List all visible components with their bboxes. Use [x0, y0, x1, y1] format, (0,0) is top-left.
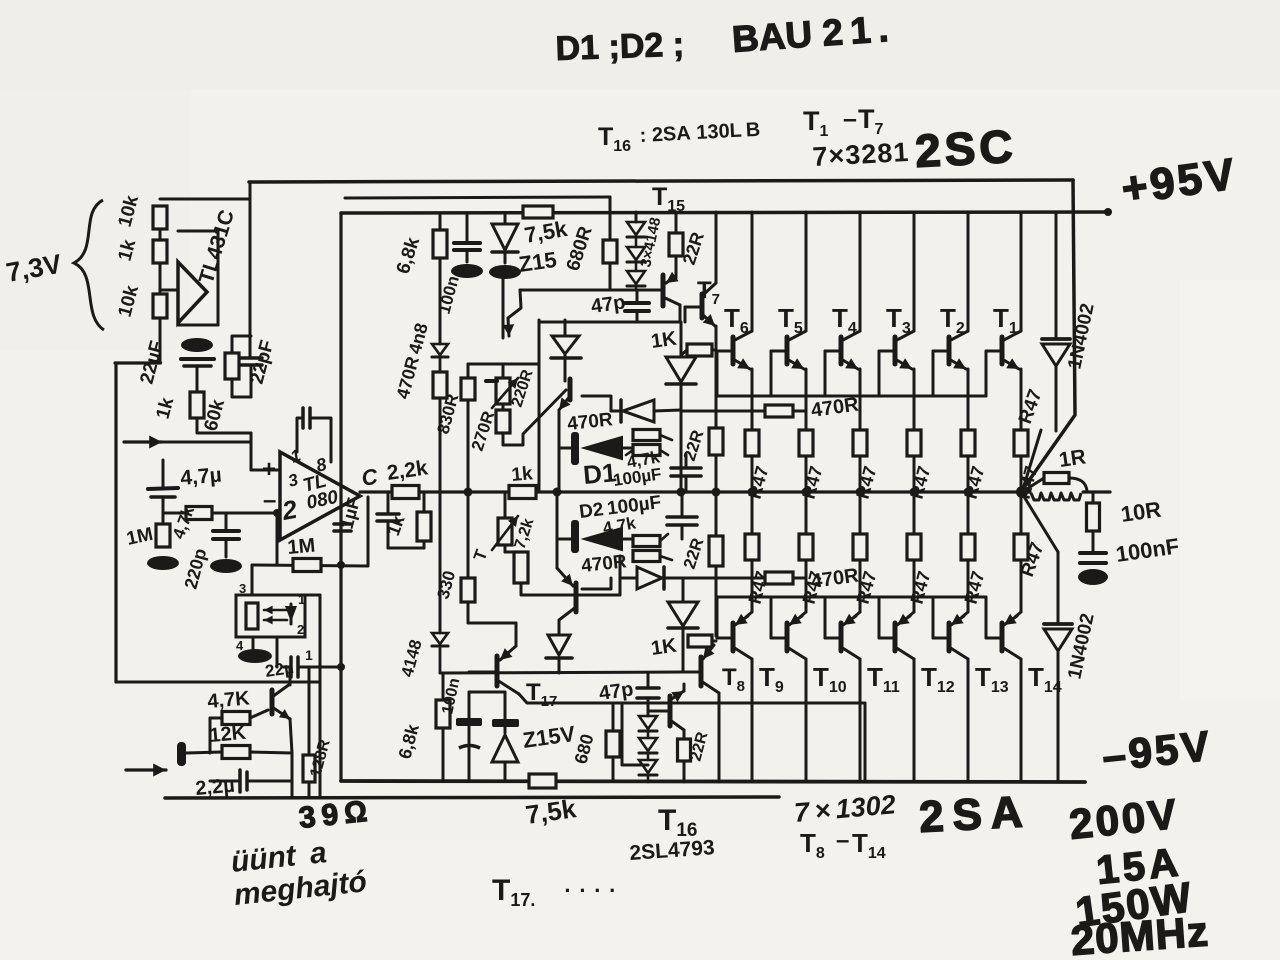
wire T16 collector	[683, 684, 686, 739]
wire x620 vert	[619, 556, 622, 595]
label 12K	[209, 722, 248, 747]
svg-text:2 S A: 2 S A	[918, 788, 1024, 842]
diode chain 3x4148 a	[627, 212, 645, 247]
wire Qbias lower feed	[556, 494, 559, 568]
resistor R47 low T12	[907, 534, 921, 560]
label 680R top	[563, 224, 597, 274]
label 1R	[1057, 445, 1087, 472]
capacitor 22uF fb	[283, 657, 341, 677]
label 22uF	[137, 339, 169, 387]
label 6,8k	[393, 234, 425, 276]
opto arrows	[264, 606, 287, 625]
label R47 low T11	[853, 569, 881, 606]
wire 2,2u left	[210, 780, 240, 783]
diode small D2 row	[620, 567, 681, 589]
wire ref chain b	[159, 263, 162, 294]
label 2SC	[914, 120, 1018, 177]
wire drivers left vert	[538, 320, 541, 490]
label pin8	[314, 454, 329, 476]
transistor T10	[785, 623, 790, 651]
node feedback x341	[337, 561, 345, 569]
wire T12 emitter	[897, 560, 914, 625]
label 470R d2	[580, 551, 628, 577]
capacitor 22pF	[240, 358, 262, 365]
wire T12 collector	[895, 647, 914, 782]
resistor R47 T4	[853, 430, 867, 456]
label T1-T7	[803, 104, 884, 140]
label 470R upper bank	[810, 393, 861, 422]
resistor 60k	[225, 353, 239, 379]
wire ref chain c	[159, 318, 162, 363]
resistor 128R	[303, 667, 315, 798]
wire T13 emitter	[951, 560, 968, 625]
wire T11 emitter	[843, 560, 860, 625]
wire TL431 box top	[178, 230, 218, 233]
wire lower 470R line	[681, 577, 806, 580]
label 22u fb	[264, 658, 295, 681]
resistor 22R lower	[709, 492, 723, 636]
transistor T13	[947, 623, 952, 651]
ground 220p	[210, 559, 242, 573]
label 100nF out	[1114, 533, 1180, 567]
label T10	[813, 662, 847, 696]
wire x865 drop	[864, 703, 867, 782]
wire top outer line	[249, 180, 1073, 182]
label TL080	[301, 471, 341, 514]
resistor 4,7k input	[186, 507, 212, 520]
wire left shield vertical	[114, 363, 117, 682]
wire opamp comp box b	[310, 418, 331, 462]
frame D1 top	[582, 396, 611, 411]
brace 7.3V	[74, 200, 104, 330]
resistor 22R t16	[678, 730, 691, 782]
wire R47L T14 top	[1020, 492, 1023, 534]
svg-text:2: 2	[297, 622, 304, 637]
capacitor 2,2u	[240, 770, 292, 792]
label TL431C	[195, 207, 239, 286]
transistor T7	[685, 294, 702, 322]
transistor T2	[947, 337, 952, 364]
wire left frame vertical	[339, 213, 342, 781]
wire T4 emitter	[841, 358, 860, 430]
wire 12K line	[186, 752, 292, 753]
wire T10 emitter	[789, 560, 806, 625]
wire output end	[1083, 490, 1110, 493]
label 2,2u	[195, 775, 236, 800]
node mid x681	[677, 488, 686, 497]
svg-text:4,7K: 4,7K	[207, 687, 252, 713]
wire Qin emitter down	[290, 719, 292, 753]
resistor 1k mid line	[509, 486, 536, 499]
label 47p top	[590, 291, 627, 318]
resistor 4,7k d1 b	[633, 445, 660, 456]
label op-amp plus	[262, 456, 276, 483]
svg-text:2SC: 2SC	[914, 120, 1018, 177]
label 4148 lower	[398, 638, 426, 679]
wire input node	[162, 497, 165, 524]
label 220p	[181, 546, 211, 591]
node out 22R	[712, 488, 721, 497]
wire d2 mesh	[660, 534, 672, 560]
label 68k lower	[395, 721, 424, 761]
zener bias upper	[551, 320, 581, 381]
wire opamp feedback left	[273, 509, 281, 565]
wire 470R mid down	[439, 398, 442, 492]
label 2SL4793	[629, 836, 716, 865]
wire T2 emitter	[949, 358, 968, 430]
node +95V rail end dot	[1104, 208, 1112, 216]
wire upper base bus	[716, 395, 986, 398]
transistor T14	[1000, 623, 1005, 651]
wire R47L T9 top	[751, 492, 754, 534]
wire Qbias emitter down	[558, 410, 561, 489]
diode 4148 lower	[432, 633, 448, 673]
frame D2 bottom	[582, 578, 611, 589]
node out T6	[748, 488, 757, 497]
label T13	[975, 662, 1009, 696]
diode T16 chain b	[639, 738, 657, 760]
diode big lower	[668, 578, 698, 672]
node out T3	[910, 488, 919, 497]
wire T14 collector	[1002, 647, 1021, 782]
label T6	[724, 303, 749, 337]
resistor R47 T6	[745, 430, 759, 456]
label T17 bottom	[492, 872, 615, 910]
wire y682 line	[116, 681, 320, 684]
resistor 470R upper bank	[765, 405, 793, 417]
label T15	[652, 183, 685, 215]
wire +95V rail	[341, 212, 1108, 213]
label 20MHz	[1069, 907, 1210, 960]
wire T17 base	[469, 671, 497, 674]
label 1N4002 upper	[1064, 302, 1098, 371]
wire lower base bus	[716, 596, 986, 599]
label 3x4148	[637, 216, 664, 269]
wire TL431 box bottom	[178, 324, 218, 327]
wire T6 base	[717, 351, 733, 396]
wire y363 bias	[468, 363, 539, 366]
label 4,7k input	[169, 503, 198, 541]
wire T3 collector	[895, 212, 914, 341]
wire opto gnd stem	[252, 637, 255, 650]
node output main	[1016, 486, 1028, 498]
label 7,5k bottom	[524, 793, 579, 830]
label R47 low T10	[799, 569, 827, 606]
wire T9 emitter	[735, 560, 752, 625]
label 1K top	[650, 328, 679, 353]
label 7,2k	[512, 516, 538, 551]
label 150W	[1073, 873, 1196, 936]
wire input line	[163, 512, 280, 515]
label opamp out C	[360, 463, 381, 491]
label 47p lower	[598, 678, 635, 705]
label R47 low T12	[907, 569, 935, 606]
label T8	[722, 664, 745, 695]
label R47 low T9	[745, 569, 773, 606]
resistor 7,5k bottom	[529, 774, 556, 788]
op-amp TL080 triangle	[280, 452, 360, 540]
resistor 680 lower	[606, 703, 620, 781]
wire T12 base	[879, 597, 895, 638]
label 22u pin1	[305, 647, 313, 663]
ground Z15	[489, 265, 521, 338]
resistor 22R upper	[709, 428, 723, 492]
label 100n lower	[439, 677, 463, 716]
transistor Q bias lower	[557, 568, 576, 612]
label R47 T3	[907, 464, 935, 501]
wire fb bottom join	[388, 547, 424, 550]
wire R47L T10 top	[805, 492, 808, 534]
wire x468 bottom bend	[468, 602, 516, 623]
label hint a	[229, 836, 328, 879]
node out T5	[802, 488, 811, 497]
transistor T4	[839, 337, 844, 364]
transistor T8	[701, 645, 719, 782]
resistor opto internal	[246, 603, 258, 629]
label opto pin1	[298, 592, 305, 607]
transistor T9	[731, 623, 736, 651]
label 1k fb	[383, 512, 409, 539]
wire T2 base	[933, 351, 949, 396]
resistor 2,2k	[392, 486, 419, 499]
capacitor 100nF out	[1080, 553, 1106, 563]
inductor output	[1031, 493, 1081, 500]
wire top outer right drop	[1023, 180, 1075, 489]
label 39ohm	[297, 794, 374, 835]
label T14	[1028, 662, 1062, 696]
diode opto led	[285, 604, 297, 624]
svg-text:+: +	[262, 456, 276, 483]
wire upper 470R line	[681, 410, 806, 413]
ground 100nF out	[1078, 569, 1108, 585]
label 470R d1	[566, 409, 614, 435]
resistor 1M input	[156, 524, 170, 547]
optocoupler box	[236, 595, 305, 637]
wire x440 lower	[439, 492, 442, 633]
wire T11 base	[825, 597, 841, 638]
wire y673 line	[440, 672, 683, 673]
wire T7 emitter	[702, 314, 716, 428]
label T16 big	[658, 804, 697, 841]
label 22R upper	[680, 428, 708, 464]
node out T1	[1017, 488, 1026, 497]
capacitor 22uF blob	[181, 338, 213, 352]
wire T1 base	[986, 351, 1002, 396]
resistor R47 low T13	[961, 534, 975, 560]
capacitor 4,7u input stub	[162, 460, 165, 487]
label 10k bottom	[115, 283, 144, 319]
diode small D1 row	[611, 400, 681, 422]
svg-text:1M: 1M	[287, 535, 317, 559]
label 22R t16	[687, 730, 711, 763]
capacitor 22uF plates	[181, 359, 214, 366]
label T12	[921, 662, 955, 696]
wire R47 T3 down	[913, 456, 916, 492]
label meghajto	[232, 865, 368, 912]
wire T10 collector	[787, 647, 806, 782]
wire R47L T12 top	[913, 492, 916, 534]
resistor 10k bottom	[153, 294, 167, 318]
wire T9 base	[717, 597, 733, 638]
zener Z15V lower	[492, 692, 519, 781]
wire T14 base	[986, 597, 1002, 638]
resistor 4,7k d2 a	[633, 536, 660, 547]
capacitor 4,7u plates	[148, 488, 178, 497]
svg-text:3: 3	[239, 581, 246, 596]
label R47 T1	[1014, 464, 1042, 501]
label pin2	[279, 494, 300, 526]
resistor 830R	[461, 378, 475, 400]
wire T1 emitter	[1002, 358, 1021, 430]
wire R47 T5 down	[805, 456, 808, 492]
label pin1	[288, 446, 303, 467]
capacitor 47p lower	[637, 674, 659, 714]
resistor 4,7k d1 a	[633, 430, 660, 441]
capacitor 220p	[213, 513, 239, 557]
wire T11 collector	[841, 647, 860, 782]
label R47 T4	[853, 464, 881, 501]
label 330	[434, 569, 460, 601]
label T3	[886, 303, 911, 337]
label 128R	[307, 737, 333, 779]
wire diag to node upper	[1023, 430, 1041, 489]
svg-text:1K: 1K	[650, 328, 679, 353]
resistor R47 low T10	[799, 534, 813, 560]
capacitor 100n top	[454, 213, 480, 262]
wire R47L T13 top	[967, 492, 970, 534]
capacitor 100uF d2	[667, 492, 697, 539]
node fb 22u	[337, 663, 345, 671]
diode chain 3x4148 c	[627, 271, 645, 290]
label 1M input	[125, 524, 155, 550]
wire T7 collector	[703, 212, 716, 295]
transistor T5	[785, 337, 790, 364]
svg-text:–: –	[836, 827, 849, 854]
wire ref bottom line	[115, 361, 160, 364]
label 4,7k d1	[625, 447, 661, 472]
wire x468 down	[467, 400, 470, 492]
wire mid output line	[360, 490, 1030, 493]
resistor 1R	[1022, 473, 1087, 493]
label 680 lower	[571, 732, 598, 766]
resistor 270R	[496, 404, 510, 433]
label 22R top	[679, 230, 708, 268]
resistor 330	[461, 578, 475, 602]
capacitor 100uF d1	[671, 455, 701, 492]
capacitor comp plates	[303, 408, 310, 428]
label D1 D2 title	[555, 26, 685, 68]
label 470R 4n8	[393, 321, 432, 401]
wire bottom outer rail	[165, 797, 779, 798]
label 1N4002 lower	[1064, 612, 1098, 681]
wire lower base line	[521, 583, 620, 595]
wire Qin collector up	[289, 667, 292, 685]
wire T16 box left	[622, 703, 648, 765]
wire T5 base	[771, 351, 787, 396]
label 2,2k	[385, 456, 429, 485]
diode T16 chain c	[639, 760, 657, 782]
capacitor input blob	[177, 742, 186, 766]
label +95V	[1119, 149, 1241, 214]
label 15A	[1094, 840, 1184, 893]
capacitor 100n lower	[456, 692, 482, 781]
label 60k	[201, 397, 230, 433]
label 22pF	[247, 338, 279, 386]
ground input 1M	[147, 556, 179, 570]
label 1uF	[337, 496, 364, 531]
resistor 1k mid	[153, 240, 167, 263]
resistor 1k fb	[417, 492, 431, 548]
label D1	[582, 457, 618, 490]
label 100uF d1	[612, 464, 663, 490]
wire 6,8k down	[439, 258, 442, 344]
label 10R	[1119, 497, 1163, 527]
resistor 1K lower	[688, 635, 716, 647]
wire R47L T11 top	[859, 492, 862, 534]
wire x320 vertical	[305, 595, 320, 798]
svg-text:20MHz: 20MHz	[1069, 907, 1210, 960]
wire mid top line	[345, 197, 610, 198]
wire ref chain a	[159, 229, 162, 240]
svg-text:4,7µ: 4,7µ	[179, 463, 222, 490]
trimmer 7,2k	[492, 492, 518, 550]
wire 270R to base	[503, 390, 566, 445]
diode big top	[666, 357, 696, 492]
wire T14 emitter	[1004, 560, 1021, 625]
wire ref to opamp plus	[250, 182, 251, 397]
wire opamp pin1 up	[296, 424, 299, 452]
label 830R	[434, 392, 463, 436]
label 1k mid	[115, 237, 141, 263]
transistor T6	[731, 337, 736, 364]
wire T6 emitter	[733, 358, 752, 430]
wire T15 collector down	[680, 305, 681, 357]
resistor 22R top	[669, 212, 683, 278]
label 1k left	[153, 395, 179, 421]
diode D2	[559, 520, 633, 553]
transistor Q bias upper	[559, 379, 571, 410]
diode 1N4002 lower	[1044, 552, 1072, 782]
svg-text:. . . .: . . . .	[560, 872, 615, 897]
label R47 diag upper	[1015, 387, 1047, 427]
label Z15	[517, 247, 558, 277]
wire T4 collector	[841, 212, 860, 341]
label opto pin4	[236, 638, 244, 653]
svg-text:1K: 1K	[650, 635, 679, 660]
label 1K lower	[650, 635, 679, 660]
label T11	[867, 662, 900, 696]
wire T3 base	[879, 351, 895, 396]
wire R47 T6 down	[751, 456, 754, 492]
label T17	[526, 679, 557, 710]
label 7x3281	[812, 137, 910, 172]
label 270R	[468, 409, 499, 454]
wire 60k down	[232, 379, 251, 397]
wire opto pin2 down	[276, 637, 279, 667]
resistor 10k top	[153, 206, 167, 229]
wire x468 below	[467, 492, 470, 578]
label 220R	[509, 367, 537, 409]
diode 4148 upper	[432, 344, 448, 372]
resistor 1k left	[190, 392, 204, 418]
zener Z15	[492, 213, 518, 263]
label 470R lower bank	[810, 564, 861, 593]
wire fb to opto	[251, 565, 254, 595]
capacitor 1uF plates	[334, 524, 351, 531]
svg-text:–: –	[843, 105, 857, 133]
wire T10 base	[771, 597, 787, 638]
label T7	[697, 277, 720, 308]
